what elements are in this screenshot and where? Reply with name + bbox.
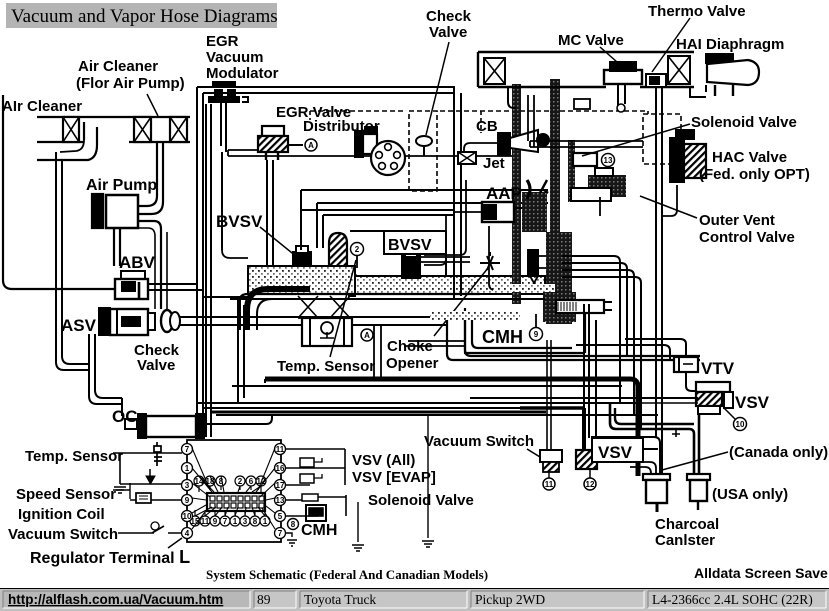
wire far left vertical [3, 95, 114, 289]
svg-text:Jet: Jet [483, 155, 505, 172]
svg-text:3: 3 [243, 517, 248, 526]
wire CMH down ground [422, 415, 434, 547]
wire rail y297 [203, 296, 248, 298]
duct inner drop [508, 87, 516, 108]
svg-text:9: 9 [534, 330, 539, 339]
svg-text:Solenoid Valve: Solenoid Valve [368, 492, 474, 509]
svg-text:89: 89 [257, 592, 271, 607]
leader check valve label [426, 42, 449, 135]
svg-text:Air Pump: Air Pump [86, 177, 157, 194]
vacuum switch component [540, 450, 562, 462]
leader canada only [662, 452, 728, 470]
svg-text:Opener: Opener [386, 355, 439, 372]
svg-text:VTV: VTV [701, 359, 735, 378]
HAI snorkel [706, 54, 733, 63]
wire pin16 [286, 467, 345, 469]
wire vacuum switch stem [546, 340, 548, 452]
svg-text:15: 15 [191, 517, 200, 526]
manifold stippled band [248, 266, 355, 294]
check valve inline [161, 310, 173, 332]
svg-text:BVSV: BVSV [216, 212, 263, 231]
svg-text:VSV [EVAP]: VSV [EVAP] [352, 469, 436, 486]
wire pump bottom to ABV [113, 228, 115, 266]
dark blob above AAP [522, 192, 547, 232]
ignition coil icon [136, 493, 151, 503]
node 2 [351, 243, 364, 256]
leader outer vent [640, 196, 697, 218]
wire label to lines [113, 489, 130, 491]
svg-text:Valve: Valve [429, 24, 467, 41]
BVSV1 leader [260, 227, 297, 257]
left rail pins [182, 444, 193, 539]
wire solenoid down ground [352, 502, 364, 551]
wire bundle from right to carb [301, 189, 548, 191]
solenoid valve component [573, 153, 597, 166]
wire duct drop to air pump [83, 122, 85, 140]
connector pin circles bottom [190, 510, 270, 526]
svg-text:16: 16 [276, 464, 285, 473]
svg-text:2: 2 [238, 477, 243, 486]
wire modulator to EGR valve [222, 250, 248, 258]
svg-text:Toyota Truck: Toyota Truck [304, 592, 376, 607]
svg-text:1: 1 [263, 517, 268, 526]
svg-text:(Fed. only OPT): (Fed. only OPT) [699, 166, 810, 183]
svg-text:A: A [364, 331, 370, 340]
svg-text:ABV: ABV [119, 253, 156, 272]
wire dashed hose top [310, 110, 406, 112]
wire pin13 solenoid [286, 497, 346, 500]
wire carb base lines [239, 300, 241, 330]
hatch box duct left [484, 58, 505, 84]
svg-text:Alldata Screen Save: Alldata Screen Save [694, 565, 828, 581]
svg-text:14: 14 [195, 477, 204, 486]
svg-text:AIr Cleaner: AIr Cleaner [2, 98, 82, 115]
svg-text:Vacuum Switch: Vacuum Switch [424, 433, 534, 450]
distributor vacuum unit [355, 131, 363, 157]
svg-text:HAC Valve: HAC Valve [712, 149, 787, 166]
VSV evap icon [300, 474, 314, 483]
wire AAP left [455, 211, 482, 213]
svg-text:Distributor: Distributor [303, 118, 380, 135]
svg-text:HAI Diaphragm: HAI Diaphragm [676, 36, 784, 53]
wire speed sensor line [120, 483, 182, 485]
canada canister inlet [630, 462, 656, 474]
svg-text:Canlster: Canlster [655, 532, 715, 549]
wire heavy rail [265, 379, 638, 476]
wire CB left [464, 143, 498, 152]
speed sensor icon [146, 476, 155, 484]
HAI lower bar [690, 85, 706, 97]
wire CMH box [472, 312, 572, 348]
svg-text:Vacuum Switch: Vacuum Switch [8, 526, 118, 543]
svg-text:OC: OC [112, 407, 138, 426]
leader temp sensor [330, 260, 356, 357]
svg-text:12: 12 [257, 477, 266, 486]
svg-text:http://alflash.com.ua/Vacuum.h: http://alflash.com.ua/Vacuum.htm [8, 592, 223, 607]
svg-text:8: 8 [291, 520, 296, 529]
wire left hose down to ABV [56, 152, 89, 370]
BVSV2 component [402, 256, 420, 278]
node 13 [602, 154, 615, 167]
svg-text:ASV: ASV [61, 316, 97, 335]
temp sensor icon [154, 442, 162, 466]
VSV right [696, 382, 730, 392]
svg-text:CB: CB [476, 118, 498, 135]
svg-text:13: 13 [276, 496, 285, 505]
MC valve component [604, 70, 642, 84]
svg-text:7: 7 [278, 529, 283, 538]
svg-text:7: 7 [185, 445, 190, 454]
wire pin17 [286, 484, 310, 486]
wire duct bottom segments [37, 141, 84, 143]
svg-text:Vacuum and Vapor Hose Diagrams: Vacuum and Vapor Hose Diagrams [11, 6, 278, 27]
VSV bottom component [576, 450, 597, 469]
thermo valve component [646, 74, 666, 87]
check valve in dashed box [416, 136, 432, 146]
connector pin circles top [194, 476, 266, 492]
wire bundle right horizontals [562, 256, 620, 403]
svg-text:Air Cleaner: Air Cleaner [78, 58, 158, 75]
svg-text:Pickup 2WD: Pickup 2WD [475, 592, 545, 607]
svg-text:10: 10 [736, 420, 745, 429]
CMH2 component [306, 505, 326, 521]
charcoal canister canada [643, 474, 670, 480]
air pump body [106, 195, 138, 228]
wire pump to check valve loop [138, 221, 161, 309]
wire check valve to carb [180, 316, 455, 318]
svg-text:Ignition Coil: Ignition Coil [18, 506, 105, 523]
choke opener leader [434, 268, 488, 336]
svg-text:1: 1 [185, 464, 190, 473]
ECU connector fan lines [192, 448, 275, 529]
wire regulator leader [168, 538, 182, 548]
wire OC out right [204, 423, 266, 425]
svg-text:Check: Check [426, 8, 472, 25]
wire verticals down to VSV box [583, 304, 585, 408]
svg-text:(Flor Air Pump): (Flor Air Pump) [76, 75, 185, 92]
wire right verticals long [655, 88, 657, 437]
intake horn [247, 289, 310, 330]
ECU box [187, 440, 281, 542]
right rail pins [275, 444, 286, 539]
wire EGR valve down [266, 160, 268, 266]
svg-text:VSV: VSV [735, 393, 770, 412]
funnel below tower [298, 296, 350, 318]
manifold lower outline [240, 294, 480, 300]
ground left [114, 487, 126, 493]
throttle pipe right [556, 300, 604, 313]
svg-text:(USA only): (USA only) [712, 486, 788, 503]
leader MC valve [600, 47, 617, 62]
status bar [0, 588, 829, 611]
duct top [478, 51, 694, 53]
wire VTV feed [625, 339, 686, 357]
HAC valve component [670, 138, 684, 182]
wire center double vertical [453, 87, 455, 300]
hatch box left [63, 117, 79, 142]
wire duct top line [37, 116, 190, 118]
svg-text:Temp. Sensor: Temp. Sensor [277, 358, 375, 375]
svg-text:EGR: EGR [206, 33, 239, 50]
svg-text:7: 7 [223, 517, 228, 526]
ABV valve [121, 271, 145, 279]
svg-text:BVSV: BVSV [388, 237, 432, 254]
temp sensor [345, 274, 359, 288]
label BVSV 2 boxed [384, 231, 446, 254]
svg-text:CMH: CMH [301, 522, 337, 539]
hatch box right [170, 117, 187, 142]
distributor cap [371, 141, 405, 175]
leader flor air pump [147, 94, 158, 116]
charcoal canister usa [687, 474, 710, 480]
svg-text:17: 17 [276, 481, 285, 490]
svg-text:12: 12 [586, 480, 595, 489]
VSV all icon [300, 458, 314, 467]
node A2 [361, 329, 373, 341]
stippled bar 2 [550, 79, 560, 234]
leader thermo valve [652, 18, 690, 72]
wire ABV to border [148, 283, 197, 285]
EGR vacuum modulator [213, 82, 235, 86]
svg-text:VSV (All): VSV (All) [352, 452, 415, 469]
wire ignition line [130, 499, 182, 501]
stippled bar 1 [512, 84, 521, 304]
svg-text:L4-2366cc 2.4L SOHC (22R): L4-2366cc 2.4L SOHC (22R) [652, 592, 813, 607]
hatch box duct right [668, 56, 690, 84]
svg-text:VSV: VSV [598, 443, 633, 462]
label VSV bottom boxed [592, 438, 643, 462]
node 12 [584, 478, 596, 490]
leader solenoid valve [582, 124, 690, 156]
wire EGR valve to circled A [288, 144, 303, 146]
wire ASV down [88, 334, 90, 396]
svg-text:3: 3 [185, 481, 190, 490]
svg-text:8: 8 [253, 517, 258, 526]
wire y158 cross hose [228, 149, 258, 151]
svg-text:(Canada only): (Canada only) [729, 444, 828, 461]
vertical VSV feed [344, 449, 346, 485]
svg-text:8: 8 [219, 477, 224, 486]
circled digit glyphs [183, 141, 745, 538]
wire VSV box to canada canister [643, 448, 658, 450]
svg-text:Modulator: Modulator [206, 65, 279, 82]
svg-text:Outer Vent: Outer Vent [699, 212, 775, 229]
CMH top stipple [430, 311, 520, 320]
wire pin5 [286, 515, 318, 517]
wire air cleaner to pump vertical [156, 142, 158, 196]
OC canister [138, 414, 146, 438]
svg-text:Solenoid Valve: Solenoid Valve [691, 114, 797, 131]
air pump pulley [92, 194, 103, 228]
svg-text:1: 1 [233, 517, 238, 526]
node 11 [543, 478, 555, 490]
svg-text:System Schematic (Federal And: System Schematic (Federal And Canadian M… [206, 567, 488, 582]
wire vacuum switch bl line [118, 526, 182, 533]
wire horn verticals down [237, 300, 239, 403]
hatch box mid [134, 117, 151, 142]
wire modulator hose down [205, 104, 207, 437]
wire y339 345 to right [576, 345, 670, 360]
svg-text:AAP: AAP [486, 184, 522, 203]
carb tower [329, 233, 347, 280]
outer vent control valve [588, 175, 626, 197]
OC inlet stub [125, 419, 137, 429]
dashed box HAC [643, 114, 681, 164]
svg-text:A: A [308, 141, 314, 150]
svg-text:Temp. Sensor: Temp. Sensor [25, 448, 123, 465]
connector body [207, 493, 265, 511]
carb body under [302, 318, 352, 346]
AAP pump [482, 202, 514, 222]
BVSV 1 [293, 252, 311, 270]
VTV [674, 357, 698, 372]
svg-text:9: 9 [185, 496, 190, 505]
node A [305, 139, 317, 151]
svg-text:MC Valve: MC Valve [558, 32, 624, 49]
svg-text:11: 11 [276, 445, 285, 454]
svg-text:Choke: Choke [387, 338, 433, 355]
CB valve [498, 133, 510, 155]
ground mid [286, 533, 297, 546]
node 9 [530, 328, 543, 341]
title bar [6, 3, 278, 28]
svg-text:9: 9 [213, 517, 218, 526]
wire border left verticals [196, 87, 198, 437]
wire border top [197, 86, 455, 88]
svg-text:18: 18 [206, 477, 215, 486]
wire rails y403..415 [197, 402, 638, 404]
solenoid icon [302, 494, 318, 501]
dashed box check valve [409, 111, 437, 191]
svg-text:13: 13 [604, 156, 613, 165]
svg-text:Control Valve: Control Valve [699, 229, 795, 246]
svg-text:2: 2 [355, 245, 360, 254]
svg-text:Charcoal: Charcoal [655, 516, 719, 533]
wire pin to VSV all [286, 448, 345, 450]
svg-text:6: 6 [249, 477, 254, 486]
ASV valve [99, 308, 110, 335]
svg-text:11: 11 [545, 480, 554, 489]
svg-text:5: 5 [278, 512, 283, 521]
svg-text:4: 4 [185, 529, 190, 538]
wire VSV left hoses [470, 397, 698, 399]
svg-text:11: 11 [201, 517, 210, 526]
svg-text:Valve: Valve [137, 357, 175, 374]
jet [458, 152, 476, 164]
choke opener [528, 250, 538, 276]
svg-text:Vacuum: Vacuum [206, 49, 264, 66]
svg-text:Regulator Terminal L: Regulator Terminal L [30, 547, 190, 567]
bottom captions [206, 565, 828, 582]
wire solenoid dashes to HAC [530, 140, 643, 142]
EGR valve [262, 126, 284, 136]
wire temp sensor line [113, 452, 182, 454]
svg-text:Thermo Valve: Thermo Valve [648, 3, 746, 20]
svg-text:Speed Sensor: Speed Sensor [16, 486, 116, 503]
svg-text:CMH: CMH [482, 327, 523, 347]
wire bold hose to usa canister [610, 403, 694, 476]
node 10 [734, 418, 747, 431]
